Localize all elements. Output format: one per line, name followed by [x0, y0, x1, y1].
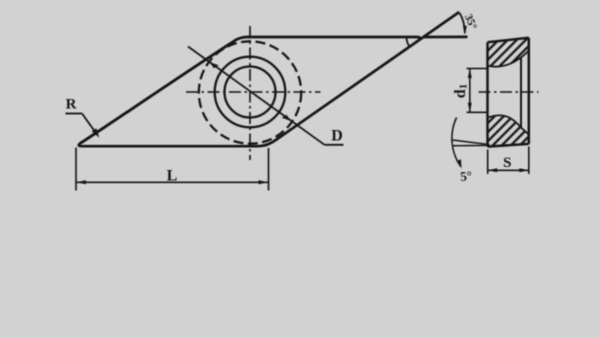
- svg-text:5°: 5°: [460, 168, 473, 184]
- L dimension extension lines: [75, 148, 77, 191]
- 5 deg dimension arc: [452, 118, 461, 167]
- section outline: left edge: [486, 42, 489, 146]
- svg-text:S: S: [503, 155, 511, 171]
- d1 arrow down: [468, 103, 472, 113]
- S arrow right: [519, 168, 529, 172]
- vertical centerline: [249, 26, 251, 160]
- bottom hatched area: [488, 115, 529, 146]
- L arrow left: [76, 180, 86, 184]
- insert outline (plan view, 35-deg rhombic insert): [79, 37, 420, 146]
- 5 deg wedge line lower: [453, 144, 490, 146]
- horizontal centerline: [186, 91, 321, 93]
- d1 extension lines: [467, 68, 488, 70]
- svg-text:R: R: [66, 97, 77, 113]
- 35 deg dimension arc with arrow: [460, 13, 465, 33]
- d1 dimension line: [469, 69, 471, 113]
- L dimension line: [76, 181, 269, 183]
- top hatched area: [488, 38, 529, 67]
- 5 deg wedge line upper: [453, 140, 490, 145]
- svg-text:L: L: [167, 167, 178, 184]
- hole counterbore circle: [215, 57, 286, 128]
- R leader shoulder: [66, 113, 83, 115]
- 35 deg small arc at corner C: [407, 37, 410, 47]
- hole circle: [225, 67, 276, 118]
- L arrow right: [259, 180, 269, 184]
- right edge: [528, 38, 531, 144]
- R leader arrow: [92, 128, 99, 137]
- top edge extension line: [424, 36, 468, 39]
- hole bottom wall curve: [488, 115, 529, 134]
- D leader arrow upper: [209, 62, 218, 68]
- S extension lines: [487, 150, 489, 175]
- D leader arrow lower: [282, 115, 291, 121]
- top edge: [488, 38, 529, 42]
- R leader: [82, 114, 97, 135]
- hole top wall curve: [488, 51, 529, 67]
- D leader line through hole: [188, 47, 325, 145]
- inscribed circle (dashed): [199, 41, 301, 143]
- bottom edge: [488, 144, 529, 147]
- d1 arrow up: [468, 69, 472, 79]
- right edge extension to apex: [417, 12, 460, 42]
- left edge (slightly bowed, drawn over outline): [80, 42, 233, 144]
- section centerline: [479, 91, 539, 93]
- countersink bore back wall: [520, 58, 522, 128]
- S arrow left: [488, 168, 498, 172]
- svg-text:D: D: [331, 128, 343, 145]
- S dimension line: [488, 169, 529, 171]
